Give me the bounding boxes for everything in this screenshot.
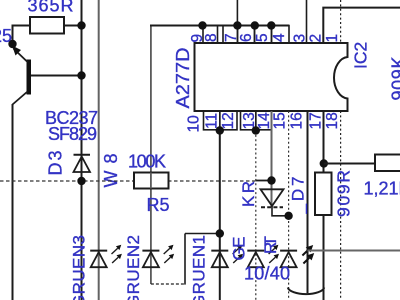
svg-text:14: 14 xyxy=(256,112,273,130)
svg-text:909R: 909R xyxy=(334,170,354,217)
svg-text:KR: KR xyxy=(239,181,258,207)
svg-text:SF829: SF829 xyxy=(48,124,97,144)
pin box 13 xyxy=(241,111,256,130)
node junction dot (254.8,25.5) xyxy=(251,21,259,29)
svg-text:17: 17 xyxy=(308,112,325,129)
wire vertical net at x=81.5 (365R junction down to bottom) xyxy=(81,0,83,300)
pin box 8 xyxy=(203,26,218,44)
wire pin11/12 net down xyxy=(219,131,221,300)
svg-text:GRUEN1: GRUEN1 xyxy=(190,235,209,300)
svg-text:GE: GE xyxy=(230,237,249,261)
wire left vertical x=12.5 upper segment to 365R xyxy=(12,26,14,45)
svg-text:12: 12 xyxy=(220,112,237,129)
wire pin18 net down xyxy=(323,111,325,300)
LED GE xyxy=(247,245,279,267)
svg-text:1,21K: 1,21K xyxy=(364,179,400,199)
svg-text:_D7: _D7 xyxy=(289,177,308,215)
wire pin1 dotted feed from top xyxy=(340,0,342,43)
wire solid segment y=180.5 to KR column xyxy=(256,180,272,182)
transistor collector wire xyxy=(13,92,28,105)
diode D3 cathode bar xyxy=(74,154,91,156)
node junction dot (219.8,233.5) xyxy=(216,229,224,237)
wire pin13/14 dotted net down xyxy=(255,131,257,300)
svg-text:15: 15 xyxy=(272,112,289,129)
pin box 6 xyxy=(238,26,255,44)
svg-text:3: 3 xyxy=(292,34,309,43)
svg-text:4: 4 xyxy=(271,33,288,42)
svg-text:365R: 365R xyxy=(28,0,74,16)
wire vertical grey net at x=98.5 (GRUEN3 LED column) xyxy=(98,0,100,300)
svg-text:909K: 909K xyxy=(389,57,400,101)
svg-text:IC2: IC2 xyxy=(351,42,371,69)
wire grey horizontal y=250.5 right xyxy=(308,250,400,252)
wire 365R right lead xyxy=(64,25,82,27)
wire dashed horizontal net y=181 xyxy=(0,180,256,182)
svg-text:GRUEN2: GRUEN2 xyxy=(124,235,143,300)
pin box 12 xyxy=(220,111,237,130)
LED RT xyxy=(280,245,314,267)
wire pin3 feed from top xyxy=(306,0,308,43)
svg-text:16: 16 xyxy=(289,112,306,129)
resistor 1,21K (clipped right) xyxy=(375,155,400,172)
wire pin15 grey net down xyxy=(271,111,273,207)
node junction dot (202.5,25.5) xyxy=(198,21,206,29)
LED GRUEN1 xyxy=(211,245,243,267)
node junction dot (12.5,44) xyxy=(8,40,16,48)
node junction dot (237.4,25.5) xyxy=(233,21,241,29)
wire D7 cathode jog xyxy=(272,206,289,216)
outer bus line y=25.5 xyxy=(150,25,289,27)
svg-text:100K: 100K xyxy=(128,152,166,172)
svg-text:18: 18 xyxy=(324,112,341,129)
svg-text:8: 8 xyxy=(203,33,220,42)
node junction dot (288.6,215.8) xyxy=(284,212,292,220)
node junction dot (219.8,130.5) xyxy=(216,126,224,134)
svg-text:D3: D3 xyxy=(46,151,66,176)
transistor Q1 BC237 base bar xyxy=(27,60,32,95)
svg-text:2: 2 xyxy=(308,34,325,43)
wire 365R left lead xyxy=(12,25,31,27)
diode D7 triangle xyxy=(261,189,284,206)
svg-text:RT: RT xyxy=(261,236,280,254)
node junction dot (255.8,130.5) xyxy=(252,126,260,134)
pin box 14 xyxy=(256,111,272,130)
wire pin16 dotted net down xyxy=(288,111,290,300)
wire pin18-box dotted right net down xyxy=(340,111,342,300)
wire vertical grey net at x=150.9 (from bus corner through R5 to GRUEN2 LED) xyxy=(150,26,152,285)
node junction dot (271.3,25.5) xyxy=(267,21,275,29)
transistor base wire xyxy=(31,75,82,77)
svg-text:10/40: 10/40 xyxy=(244,264,290,284)
node junction dot (81.5,181) xyxy=(77,177,85,185)
node junction dot (81.5,75.5) xyxy=(77,71,85,79)
resistor 909R xyxy=(315,173,332,216)
diode D3 triangle xyxy=(74,157,91,173)
lamp bulb arc xyxy=(288,288,324,295)
resistor 365R xyxy=(30,17,64,34)
wire pin7 feed from top xyxy=(236,0,238,26)
wire pin2 feed corner to right edge xyxy=(323,8,400,43)
wire pin17 net down xyxy=(307,111,309,293)
LED GRUEN2 xyxy=(142,245,174,267)
wire GRUEN2 bottom jog xyxy=(151,283,185,285)
wire horizontal y=233.5 xyxy=(185,233,220,235)
node junction dot (323.8,163.5) xyxy=(320,159,328,167)
pin box 7 xyxy=(223,26,238,44)
pin box 11 xyxy=(204,111,220,130)
svg-text:11: 11 xyxy=(204,113,221,129)
wire left vertical x=12.5 lower segment (collector rail) xyxy=(12,104,14,300)
transistor emitter wire with arrow xyxy=(14,49,28,63)
wire grey over R5 xyxy=(150,173,152,189)
svg-text:R5: R5 xyxy=(147,195,170,215)
svg-text:10: 10 xyxy=(186,115,203,133)
pin box 4 xyxy=(272,26,290,44)
node junction dot (81.5,25.5) xyxy=(77,21,85,29)
LED GRUEN3 xyxy=(90,245,122,267)
svg-text:GRUEN3: GRUEN3 xyxy=(70,235,89,300)
pin box 5 xyxy=(255,26,272,44)
IC2 A277D body xyxy=(195,43,348,111)
svg-text:A277D: A277D xyxy=(173,48,193,109)
wire vertical x=185 xyxy=(184,234,186,285)
svg-text:1: 1 xyxy=(324,34,341,43)
svg-text:5: 5 xyxy=(254,33,271,42)
svg-text:6: 6 xyxy=(238,33,255,42)
node junction dot (271.5,180.5) xyxy=(267,176,275,184)
diode D7 dashed cathode bar xyxy=(261,206,283,208)
resistor R5 xyxy=(134,173,169,189)
wire to 1,21K resistor xyxy=(324,163,375,165)
